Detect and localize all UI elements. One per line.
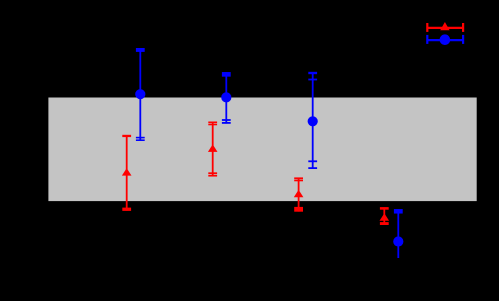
red point 2 marker (208, 144, 218, 152)
legend blue marker (440, 34, 451, 45)
legend blue entry (427, 35, 463, 44)
red point 4 error bar (380, 207, 389, 224)
red point 1 marker (122, 168, 132, 176)
red point 3 marker (294, 190, 304, 198)
legend red marker (440, 22, 449, 30)
gray band (48, 98, 476, 202)
red point 4 marker (380, 213, 390, 221)
red point 1 error bar (122, 135, 131, 211)
red point 2 error bar (208, 122, 217, 176)
legend red entry (427, 23, 463, 32)
blue point 2 error bar (222, 72, 231, 123)
blue point 3 error bar (308, 72, 317, 168)
blue point 4 marker (393, 236, 403, 246)
blue point 1 error bar (136, 48, 145, 141)
red point 3 error bar (294, 178, 303, 212)
blue point 3 marker (308, 116, 318, 126)
blue point 1 marker (135, 89, 145, 99)
blue point 2 marker (221, 92, 231, 102)
blue point 4 error bar (394, 209, 403, 258)
